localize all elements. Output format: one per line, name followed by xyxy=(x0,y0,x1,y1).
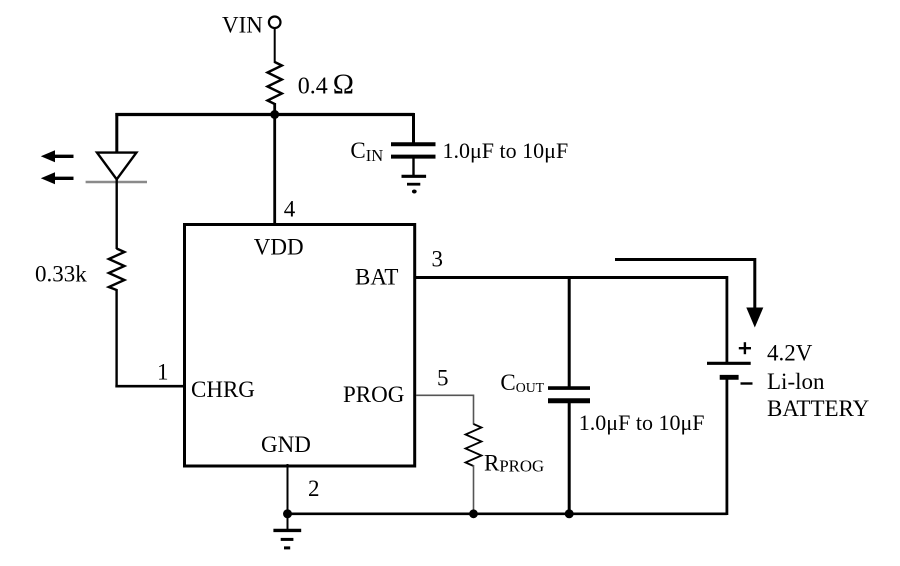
ground symbol CIN bar1 xyxy=(402,175,427,178)
svg-text:RPROG: RPROG xyxy=(484,451,544,476)
svg-text:1.0μF to 10μF: 1.0μF to 10μF xyxy=(443,138,569,163)
LED D1 triangle xyxy=(97,153,136,180)
ground symbol main bar1 xyxy=(273,529,301,532)
ground symbol main stem xyxy=(287,514,289,529)
wire COUT branch lower xyxy=(568,401,571,515)
wire R2 to CHRG corner xyxy=(115,289,117,388)
battery plus sign xyxy=(739,342,751,354)
LED D1 cathode bar xyxy=(86,181,147,184)
wire rail corner down to LED anode xyxy=(115,113,118,153)
battery BT1 positive plate xyxy=(707,362,751,365)
wire COUT branch upper xyxy=(568,276,571,389)
svg-text:BATTERY: BATTERY xyxy=(767,396,870,421)
terminal VIN xyxy=(269,17,281,29)
LED emission arrow lower xyxy=(41,172,74,184)
wire node to VDD pin 4 xyxy=(273,103,276,226)
wire GND pin 2 xyxy=(287,464,289,514)
wire LED cathode to resistor R2 xyxy=(115,179,117,249)
resistor RPROG xyxy=(466,424,482,466)
wire battery negative lead xyxy=(726,377,729,515)
resistor R1 0.4ohm xyxy=(268,62,282,104)
svg-text:GND: GND xyxy=(261,432,311,457)
capacitor COUT top plate xyxy=(548,386,590,390)
capacitor CIN top plate xyxy=(391,142,436,146)
battery minus sign xyxy=(741,382,753,384)
node junction dot GND-rail xyxy=(283,509,292,518)
ground symbol CIN dot xyxy=(412,190,417,194)
svg-text:0.33k: 0.33k xyxy=(35,262,87,287)
svg-text:5: 5 xyxy=(437,366,449,391)
svg-text:0.4: 0.4 xyxy=(298,74,328,100)
svg-text:Ω: Ω xyxy=(333,70,354,101)
wire main top rail xyxy=(115,113,414,116)
capacitor CIN bottom plate xyxy=(391,155,436,159)
wire PROG pin 5 horizontal xyxy=(416,394,474,396)
svg-text:BAT: BAT xyxy=(355,265,398,290)
wire to CHRG pin 1 xyxy=(115,385,183,388)
node junction dot COUT-rail xyxy=(565,509,574,518)
wire PROG corner down to RPROG xyxy=(473,395,475,425)
svg-text:1: 1 xyxy=(157,360,169,385)
wire CIN to ground xyxy=(412,157,414,177)
wire battery positive lead xyxy=(726,276,729,363)
svg-text:4.2V: 4.2V xyxy=(767,341,813,366)
node junction dot VIN rail xyxy=(270,110,279,119)
ground symbol main bar2 xyxy=(281,538,294,541)
wire rail corner down to capacitor CIN xyxy=(412,113,415,145)
svg-text:Li-lon: Li-lon xyxy=(767,369,825,394)
node junction dot RPROG-rail xyxy=(469,509,478,518)
LED emission arrow upper xyxy=(41,150,74,162)
svg-text:1.0μF to 10μF: 1.0μF to 10μF xyxy=(579,410,705,435)
wire VIN terminal to resistor R1 xyxy=(274,28,276,63)
svg-text:VDD: VDD xyxy=(254,235,304,260)
IC U1 body xyxy=(185,225,415,467)
svg-text:CIN: CIN xyxy=(350,138,383,165)
svg-text:2: 2 xyxy=(308,476,320,501)
resistor R2 0.33k xyxy=(109,249,125,291)
svg-text:4: 4 xyxy=(284,197,296,222)
wire RPROG to ground rail xyxy=(473,465,475,514)
svg-text:VIN: VIN xyxy=(222,13,263,38)
svg-text:CHRG: CHRG xyxy=(191,377,255,402)
wire bottom ground rail xyxy=(288,512,727,515)
svg-text:3: 3 xyxy=(432,247,444,272)
battery BT1 negative plate xyxy=(720,375,739,380)
svg-text:PROG: PROG xyxy=(343,382,404,407)
ground symbol main bar3 xyxy=(284,546,290,549)
wire BAT pin 3 to battery xyxy=(416,276,727,279)
svg-text:COUT: COUT xyxy=(500,370,544,395)
current flow arrow to battery xyxy=(615,258,763,328)
capacitor COUT bottom plate xyxy=(548,398,590,403)
ground symbol CIN bar2 xyxy=(407,183,420,186)
